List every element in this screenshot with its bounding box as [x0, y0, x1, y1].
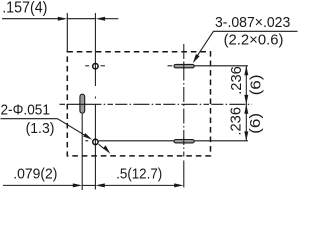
svg-text:(1.3): (1.3) [26, 120, 55, 137]
svg-text:3-.087×.023: 3-.087×.023 [215, 14, 290, 31]
svg-text:.079(2): .079(2) [13, 166, 57, 183]
svg-text:.236: .236 [228, 107, 244, 136]
svg-text:.157(4): .157(4) [2, 0, 47, 17]
svg-text:(2.2×0.6): (2.2×0.6) [224, 33, 284, 49]
svg-text:.236: .236 [229, 66, 245, 95]
svg-text:2-Φ.051: 2-Φ.051 [1, 101, 50, 118]
svg-text:(6): (6) [248, 74, 264, 95]
svg-text:.5(12.7): .5(12.7) [116, 166, 162, 183]
svg-text:(6): (6) [248, 113, 264, 134]
